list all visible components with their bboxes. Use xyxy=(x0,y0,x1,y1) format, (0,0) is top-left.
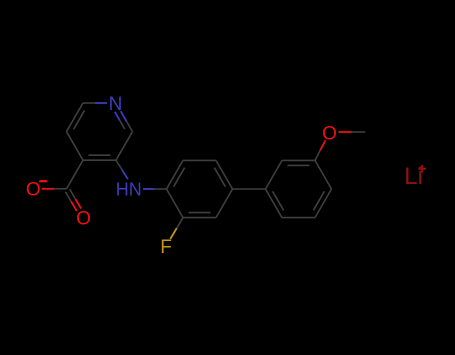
wire B1-B2 methoxyphenyl bond xyxy=(266,160,283,189)
wire B5-B6 methoxyphenyl bond xyxy=(282,217,315,219)
wire O-CH3 methyl bond gray half xyxy=(352,131,365,133)
wire C6=C1 fluorophenyl double bond xyxy=(167,160,184,189)
wire C2-C3 pyridine bond xyxy=(116,132,133,161)
wire B4=B5 methoxyphenyl double bond xyxy=(315,189,332,218)
wire C3-C4 fluorophenyl bond xyxy=(216,189,233,218)
svg-text:O: O xyxy=(76,208,91,229)
svg-text:HN: HN xyxy=(116,179,142,199)
wire N-C1 amine to fluorophenyl bond xyxy=(143,188,155,190)
svg-text:Li: Li xyxy=(404,163,423,190)
wire biphenyl link bond xyxy=(233,188,266,190)
wire C3=C4 pyridine double bond xyxy=(83,159,116,161)
wire N1-C6 pyridine bond xyxy=(83,102,95,104)
wire C7-O single bond to carboxylate O- xyxy=(54,188,66,190)
svg-text:N: N xyxy=(109,94,123,115)
wire C7=O carbonyl double bond xyxy=(65,192,71,202)
wire N1=C2 pyridine double bond xyxy=(121,111,127,121)
wire C5-C6 fluorophenyl bond xyxy=(183,159,216,161)
wire C4-C7 bond to carboxylate carbon xyxy=(67,160,84,189)
wire B3-O methoxy bond xyxy=(315,150,320,160)
wire C4-C5 pyridine bond xyxy=(67,132,84,161)
wire C3-N amine bond xyxy=(116,160,122,170)
wire C4=C5 fluorophenyl double bond xyxy=(216,160,233,189)
svg-text:F: F xyxy=(160,237,172,258)
wire C5=C6 pyridine double bond xyxy=(67,103,84,132)
wire O-CH3 methyl bond xyxy=(339,131,352,133)
wire C1-C2 fluorophenyl bond xyxy=(167,189,184,218)
svg-text:O: O xyxy=(322,123,337,144)
svg-text:O: O xyxy=(26,180,41,201)
wire C2-F fluorine bond xyxy=(177,218,183,229)
wire B2=B3 methoxyphenyl double bond xyxy=(282,159,315,161)
wire C2=C3 fluorophenyl double bond xyxy=(183,217,216,219)
wire B6=B1 methoxyphenyl double bond xyxy=(266,189,283,218)
wire B3-B4 methoxyphenyl bond xyxy=(315,160,332,189)
